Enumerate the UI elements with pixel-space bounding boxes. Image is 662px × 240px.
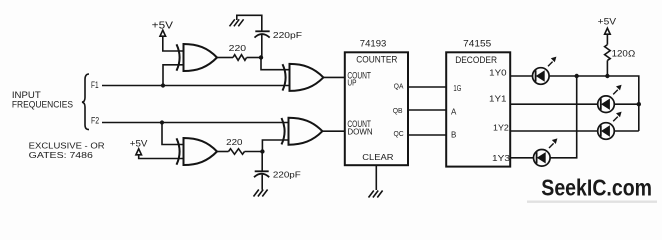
op: XOR gate U1B (top-right 7486) [283,64,324,91]
svg-text:EXCLUSIVE - OR: EXCLUSIVE - OR [29,141,105,151]
power +5V (top left) [152,20,174,36]
svg-text:F1: F1 [91,80,99,90]
label EXCLUSIVE-OR GATES: 7486 [29,141,105,161]
ground (bottom, via C2) [254,190,268,197]
wire LED D2 to rail [614,103,639,105]
wire U1C output to resistor R2 [217,151,229,153]
junction on F1 line [161,83,165,87]
svg-text:74193: 74193 [360,38,387,48]
wire 1Y3 to LED D4 [510,157,533,159]
junction on F2 line [160,120,164,124]
wire U1D output to counter COUNT DOWN [322,130,344,132]
svg-text:220pF: 220pF [273,30,302,40]
wire LED D4 up to rail junction [550,76,577,158]
svg-text:COUNTER: COUNTER [356,55,397,65]
wire LED D3 to rail [614,130,639,132]
junction rail to LED D4 branch [575,74,579,78]
svg-text:120Ω: 120Ω [612,48,636,58]
wire junction B down to capacitor C2 [261,152,263,172]
svg-text:1Y3: 1Y3 [492,154,511,163]
svg-text:DECODER: DECODER [455,55,497,65]
svg-text:1Y0: 1Y0 [489,69,507,78]
wire +5V to XOR U1A upper input [163,36,185,51]
ground (top, via C1) [230,19,244,26]
resistor R1 220 [229,43,247,60]
svg-text:QC: QC [394,129,405,138]
svg-text:1G: 1G [453,84,461,93]
wire QC to B [408,134,446,136]
svg-text:220: 220 [226,137,243,147]
wire F1 tap up to XOR U1A lower input [163,65,185,86]
wire junction A up to capacitor C1 [261,35,263,58]
LED D2 [598,85,622,113]
wire U1A output to resistor R1 [217,57,233,59]
wire F1 horizontal to XOR U1B lower input [102,85,291,87]
wire F2 horizontal to XOR U1D upper input [102,122,290,124]
wire LED D1 to +5V rail (top rail, corner down to LED D3 row) [549,76,639,131]
wire 1Y0 to LED D1 [510,75,532,77]
label INPUT FREQUENCIES [12,90,73,110]
wire R1 to junction node A [247,57,261,59]
svg-text:UP: UP [347,78,357,87]
svg-text:FREQUENCIES: FREQUENCIES [12,99,73,109]
wire CLEAR to ground [375,165,377,190]
wire R3 to rail [606,60,608,76]
svg-text:GATES: 7486: GATES: 7486 [29,150,93,160]
op: XOR gate U1C (bottom-left 7486) [177,138,218,165]
wire QB to A [408,109,446,111]
wire +5V to XOR U1C lower input [139,155,185,159]
wire +5V to resistor R3 [606,34,608,44]
svg-text:CLEAR: CLEAR [362,152,393,162]
junction node B [260,149,264,153]
junction node A [259,55,263,59]
svg-text:B: B [451,130,456,139]
power +5V (top right) [598,17,617,35]
svg-text:74155: 74155 [463,38,491,48]
wire U1B output to counter COUNT UP [323,76,344,78]
wire junction A down to XOR U1B upper input [261,58,291,70]
ground (counter CLEAR) [369,191,383,198]
svg-text:F2: F2 [91,115,99,125]
IC U3 74155 decoder box [446,38,510,166]
svg-text:+5V: +5V [130,138,149,148]
svg-text:DOWN: DOWN [347,127,372,136]
wire C2 to ground [261,175,263,190]
wire junction B up to XOR U1D lower input [262,140,289,152]
resistor R3 120 ohm [605,45,636,61]
svg-text:220pF: 220pF [273,169,301,179]
resistor R2 220 [226,137,244,155]
svg-text:+5V: +5V [598,17,617,27]
wire R2 to junction node B [245,151,263,153]
svg-text:1Y1: 1Y1 [489,95,507,104]
svg-text:SeekIC.com: SeekIC.com [541,175,652,201]
junction rail to LED D2 [637,102,641,106]
LED D3 [598,112,622,140]
op: XOR gate U1D (bottom-right 7486) [282,118,323,145]
svg-text:QA: QA [394,82,404,91]
faint scan artifact band [527,201,657,203]
power +5V (bottom left) [130,138,149,155]
svg-text:1Y2: 1Y2 [493,124,509,133]
LED D1 [533,57,557,85]
LED D4 [534,138,558,166]
svg-text:QB: QB [393,106,403,115]
wire QA to 1G [408,86,446,88]
op: XOR gate U1A (top-left 7486) [177,44,218,71]
junction rail to 120 ohm resistor [605,74,609,78]
svg-text:220: 220 [229,43,247,53]
svg-text:INPUT: INPUT [12,90,41,100]
capacitor C1 220pF [255,30,303,40]
svg-text:A: A [451,108,457,117]
wire 1Y2 to LED D3 [510,130,598,132]
wire F2 tap down to XOR U1C upper input [162,123,185,145]
brace grouping input frequencies [82,74,89,130]
wire 1Y1 to LED D2 [510,103,598,105]
wire C1 to ground [237,15,262,31]
capacitor C2 220pF [254,169,301,179]
IC U2 74193 counter box [345,38,408,165]
